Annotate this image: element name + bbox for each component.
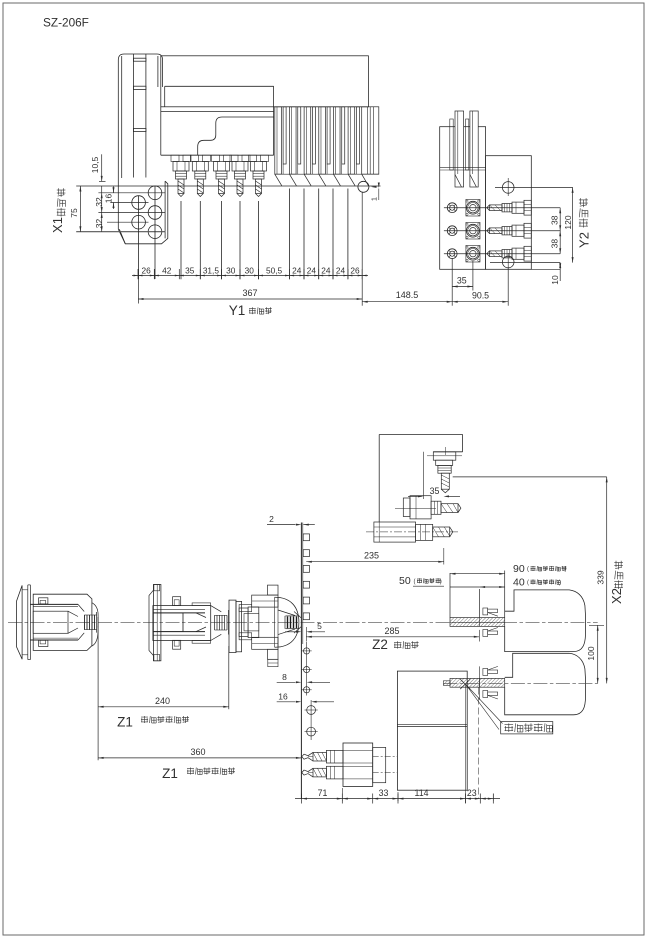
bushing clamp lower xyxy=(483,630,488,637)
drill at y=756.7 xyxy=(326,750,343,763)
dim 90.5 xyxy=(452,301,508,303)
dim line 10.5/32/32 xyxy=(101,154,103,181)
svg-text:8: 8 xyxy=(282,672,287,682)
svg-text:30: 30 xyxy=(245,265,255,275)
svg-text:285: 285 xyxy=(384,626,399,636)
workpiece stub xyxy=(443,681,450,686)
drill tool T5 xyxy=(249,155,257,161)
lower guide bushing hatched xyxy=(450,678,505,687)
dim 90 max workpiece length xyxy=(450,573,505,575)
svg-text:Z2: Z2 xyxy=(372,637,388,652)
milling block C xyxy=(160,107,162,155)
circle column verticals xyxy=(138,196,140,279)
zui da tuo ru liang xyxy=(531,579,536,581)
drill tool T1 xyxy=(171,155,179,161)
X2 slide body 2 xyxy=(505,653,586,715)
X2 slide body 1 xyxy=(505,590,586,652)
clamps lower bushing xyxy=(483,669,488,676)
main baseline xyxy=(76,185,380,187)
spindle head plate (octagon) xyxy=(118,181,168,244)
dim 285 Z2 xyxy=(306,636,479,638)
X2 zhou xingcheng xyxy=(614,581,623,583)
dim 100 xyxy=(597,625,599,683)
svg-text:32: 32 xyxy=(94,197,104,207)
svg-text:(: ( xyxy=(527,580,529,586)
svg-text:): ) xyxy=(559,580,561,586)
small cross circles row xyxy=(306,642,308,696)
X2 datum line to dims xyxy=(453,476,607,478)
back working drill unit xyxy=(343,743,373,786)
svg-text:24: 24 xyxy=(292,265,302,275)
tool comb reference line xyxy=(300,523,302,799)
dim 240 xyxy=(98,706,229,708)
dim 148.5 xyxy=(362,301,452,303)
svg-text:71: 71 xyxy=(318,788,328,798)
svg-text:Z1: Z1 xyxy=(162,766,178,781)
dim row 26/42/35/31.5/30/30/50.5/24x4/26 xyxy=(132,275,368,277)
A3 nose cap xyxy=(275,597,299,647)
comb base line xyxy=(275,173,379,175)
svg-text:24: 24 xyxy=(336,265,346,275)
larger cross circles row xyxy=(310,700,312,740)
gang tool comb blades xyxy=(275,107,282,174)
vertical drill spindle xyxy=(433,452,456,460)
dim 10 right view xyxy=(559,263,561,281)
Z1 zhou you daotao xingcheng xyxy=(141,716,148,718)
bottom datum circle right view xyxy=(502,256,514,268)
svg-text:100: 100 xyxy=(586,646,596,660)
X1 zhou xingcheng xyxy=(57,208,66,210)
svg-text:X2: X2 xyxy=(609,588,624,604)
svg-text:42: 42 xyxy=(162,265,172,275)
Y2 tool block (bottom view) xyxy=(379,434,462,436)
product recovery point label xyxy=(501,722,553,734)
horizontal drills right view xyxy=(490,205,503,211)
Z1 zhou wu daotao xingcheng xyxy=(187,768,194,770)
dim 360 xyxy=(98,757,301,759)
right view bottom dims xyxy=(451,258,453,306)
dim 16 xyxy=(113,187,115,193)
svg-text:35: 35 xyxy=(185,265,195,275)
dim 1 marks xyxy=(378,189,380,201)
top view: left guide column xyxy=(118,54,162,87)
vertical rails xyxy=(455,111,464,187)
upper guide bushing hatched xyxy=(450,618,505,627)
datum circle on baseline xyxy=(358,181,369,192)
A1 body xyxy=(33,594,92,650)
Y2 zhou xingcheng xyxy=(579,219,588,221)
svg-text:10: 10 xyxy=(550,275,560,285)
svg-text:240: 240 xyxy=(155,696,170,706)
svg-text:5: 5 xyxy=(317,621,322,631)
dim 367 xyxy=(138,298,362,300)
row lines right view xyxy=(444,207,560,209)
svg-text:SZ-206F: SZ-206F xyxy=(43,16,89,30)
svg-text:30: 30 xyxy=(226,265,236,275)
svg-text:360: 360 xyxy=(190,747,205,757)
circle crosshair rows xyxy=(98,192,165,194)
X1 axis dims xyxy=(79,186,81,232)
chan pin hui shou dian xyxy=(505,724,514,726)
svg-text:50,5: 50,5 xyxy=(266,265,283,275)
zui da gong jian chang du xyxy=(531,566,536,568)
svg-text:): ) xyxy=(440,579,442,585)
main spindle centerline Z1 xyxy=(8,621,598,623)
svg-text:35: 35 xyxy=(457,275,467,285)
drill at y=772.6 xyxy=(326,766,343,779)
svg-text:X1: X1 xyxy=(50,217,65,233)
leader to label xyxy=(466,684,503,723)
svg-text:235: 235 xyxy=(364,551,379,561)
svg-text:2: 2 xyxy=(269,514,274,524)
right view spindle circles col2 with plates xyxy=(466,199,480,216)
inner block B xyxy=(165,85,274,87)
Y1 zhou xingcheng xyxy=(249,307,256,309)
main gang slide block A xyxy=(161,56,369,107)
column ribs xyxy=(133,58,146,61)
guide bush bracket plates xyxy=(229,600,236,652)
svg-text:10,5: 10,5 xyxy=(90,156,100,173)
dim 16 xyxy=(277,701,296,703)
bottom dim extensions xyxy=(341,788,343,801)
drill tool T2 xyxy=(190,155,198,161)
svg-text:16: 16 xyxy=(104,194,114,204)
svg-text:1: 1 xyxy=(369,197,378,201)
svg-text:23: 23 xyxy=(467,788,477,798)
svg-text:114: 114 xyxy=(414,788,428,798)
svg-text:38: 38 xyxy=(550,239,560,249)
drill tool T4 xyxy=(230,155,238,161)
comb blade squares xyxy=(303,534,309,541)
top datum circle right view xyxy=(502,182,514,194)
svg-text:24: 24 xyxy=(321,265,331,275)
spindle bores in head plate xyxy=(148,186,162,200)
dim 40 max plunge xyxy=(480,586,505,588)
svg-text:35: 35 xyxy=(430,486,440,496)
svg-text:120: 120 xyxy=(563,215,573,229)
svg-text:339: 339 xyxy=(596,570,606,584)
right view body left part xyxy=(440,127,486,270)
tool block above bushing xyxy=(449,573,451,618)
extension lines from tools to dim row xyxy=(180,201,182,279)
middle horizontal drill unit xyxy=(395,508,436,510)
dim 120 xyxy=(572,187,574,262)
dim 38/38 xyxy=(559,208,561,254)
A3 collet dark rings xyxy=(287,616,289,628)
svg-text:Y2: Y2 xyxy=(577,232,592,248)
zui da xuan shen xyxy=(417,578,422,580)
svg-text:75: 75 xyxy=(69,208,79,218)
svg-text:Z1: Z1 xyxy=(117,715,133,730)
A2 collet rings xyxy=(214,615,216,630)
right view body right part xyxy=(486,156,532,270)
main spindle A1 (rear position) xyxy=(17,585,23,659)
bottom dim row xyxy=(295,798,500,800)
A1 collet rings xyxy=(84,615,86,630)
lower horizontal drill unit xyxy=(366,531,460,533)
svg-text:26: 26 xyxy=(142,265,152,275)
bushing clamp upper xyxy=(483,608,488,615)
svg-text:90.5: 90.5 xyxy=(472,290,489,300)
product recovery dashed line xyxy=(478,688,480,799)
dim 8 xyxy=(277,681,296,683)
svg-text:148.5: 148.5 xyxy=(396,290,419,300)
svg-text:40: 40 xyxy=(513,576,525,588)
dim 339 xyxy=(606,477,608,684)
svg-text:367: 367 xyxy=(242,288,257,298)
band line xyxy=(161,111,274,113)
dim 50 max overhang xyxy=(450,586,480,588)
dim 2 xyxy=(267,524,296,526)
svg-text:31,5: 31,5 xyxy=(203,265,220,275)
svg-text:32: 32 xyxy=(94,219,104,229)
svg-text:): ) xyxy=(565,567,567,573)
svg-text:26: 26 xyxy=(350,265,360,275)
svg-text:24: 24 xyxy=(307,265,317,275)
dim 235 xyxy=(306,561,444,563)
right view spindle circles col1 xyxy=(447,203,457,213)
svg-text:33: 33 xyxy=(379,788,389,798)
dim 35 vertical drill xyxy=(422,452,424,499)
drill tool T3 xyxy=(212,155,220,161)
svg-text:Y1: Y1 xyxy=(229,303,246,318)
comb end plate xyxy=(362,107,379,174)
A2 body xyxy=(153,606,211,641)
main spindle A2 (with guide bush plate) xyxy=(149,590,153,655)
dim 35 right view xyxy=(452,286,473,288)
svg-text:50: 50 xyxy=(399,575,411,587)
stepped profile inside C xyxy=(198,117,274,155)
main spindle A3 (front position at guide bush) xyxy=(268,585,279,595)
svg-text:(: ( xyxy=(414,579,416,585)
extension lines Z1 dims xyxy=(97,626,99,760)
svg-text:90: 90 xyxy=(513,563,525,575)
counter spindle housing xyxy=(397,671,467,790)
second centerline xyxy=(443,682,597,684)
svg-text:16: 16 xyxy=(278,691,288,701)
svg-text:(: ( xyxy=(527,567,529,573)
svg-text:38: 38 xyxy=(550,215,560,225)
Z2 zhou xingcheng xyxy=(394,641,401,643)
